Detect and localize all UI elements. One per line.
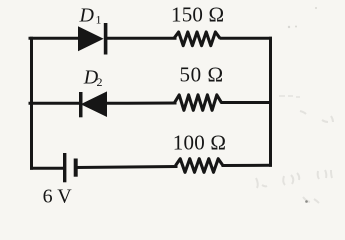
wire top horizontal (D1 to 150ohm resistor) <box>106 37 175 40</box>
svg-text:50 Ω: 50 Ω <box>180 62 224 86</box>
wire middle horizontal (left of D2) <box>30 102 80 105</box>
wire left vertical <box>30 38 33 168</box>
svg-text:1: 1 <box>96 12 102 26</box>
wire bottom horizontal (left corner to battery) <box>32 167 65 170</box>
svg-text:6 V: 6 V <box>43 186 73 208</box>
wire top horizontal (150ohm resistor to right corner) <box>221 37 271 40</box>
svg-text:100 Ω: 100 Ω <box>173 130 226 154</box>
battery long plate <box>63 153 66 182</box>
scan speck <box>305 200 308 203</box>
diode D1 cathode bar <box>104 23 108 55</box>
wire bottom horizontal (battery to 100ohm resistor) <box>76 167 176 168</box>
svg-text:2: 2 <box>97 75 103 89</box>
wire bottom horizontal (100ohm resistor to right corner) <box>223 164 271 167</box>
resistor R1 150 ohm zigzag <box>174 32 220 46</box>
battery short plate <box>74 159 78 177</box>
svg-text:D: D <box>79 4 95 26</box>
faint scan artifacts bottom right <box>256 96 333 203</box>
wire top horizontal (left of D1) <box>30 37 79 40</box>
wire middle horizontal (D2 to 50ohm resistor) <box>105 102 175 105</box>
svg-text:150 Ω: 150 Ω <box>171 2 224 26</box>
wire right vertical <box>269 38 272 165</box>
resistor R3 100 ohm zigzag <box>176 159 224 173</box>
resistor R2 50 ohm zigzag <box>175 95 222 110</box>
diode D2 cathode bar <box>79 92 83 117</box>
wire middle horizontal (50ohm resistor to right wire) <box>222 101 271 104</box>
diode D1 triangle (anode, points right) <box>79 27 103 51</box>
diode D2 triangle (points left) <box>82 92 107 116</box>
